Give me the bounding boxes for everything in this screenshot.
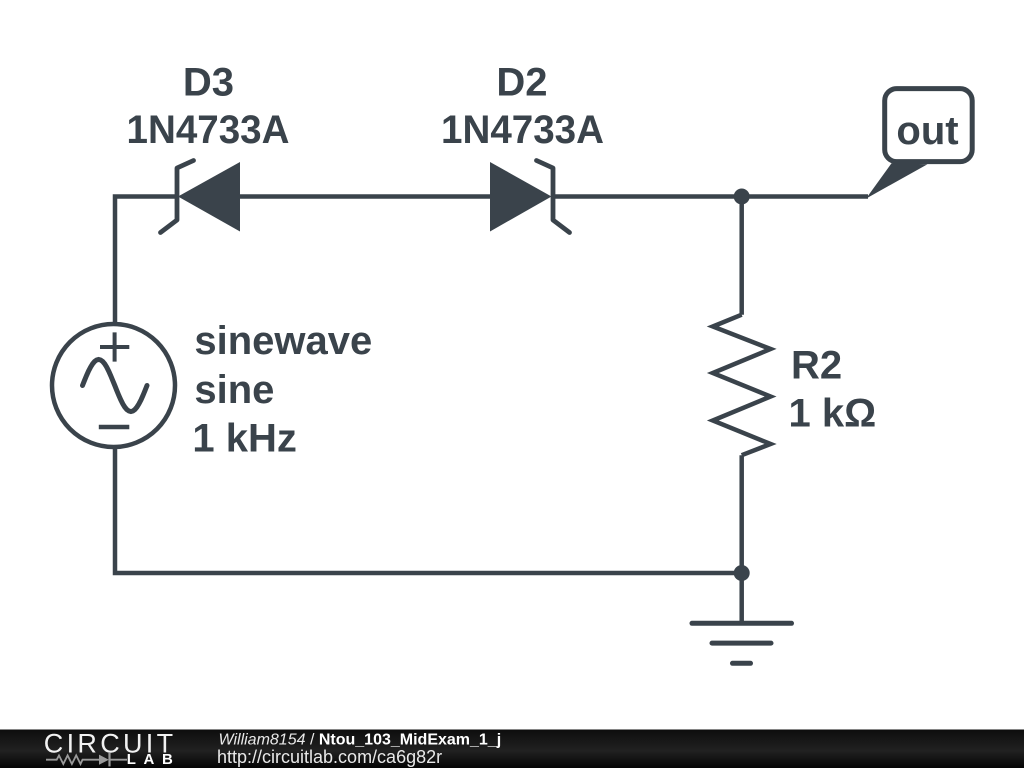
resistor R2 zigzag: [713, 315, 771, 456]
wire top-left loop: [115, 197, 179, 327]
ground bar 1: [692, 621, 792, 626]
diode D3 (zener, pointing left): [161, 161, 241, 233]
sine waveform: [83, 360, 148, 412]
voltage source V1 circle: [52, 324, 175, 447]
out flag box: [885, 89, 973, 162]
plus sign: [100, 332, 129, 361]
node junction at out: [734, 189, 750, 205]
wire resistor top lead: [739, 197, 744, 315]
svg-text:LAB: LAB: [127, 751, 181, 768]
svg-text:William8154 / Ntou_103_MidExam: William8154 / Ntou_103_MidExam_1_j: [219, 732, 502, 749]
svg-text:sinewave: sinewave: [194, 319, 372, 363]
svg-text:D2: D2: [496, 61, 547, 105]
node junction at ground: [734, 565, 750, 581]
diode D2 (zener, pointing right): [490, 161, 570, 233]
ground bar 3: [733, 661, 751, 666]
ground bar 2: [712, 641, 771, 646]
wire D3 to D2: [238, 194, 492, 199]
svg-text:1N4733A: 1N4733A: [441, 108, 604, 152]
svg-text:1 kHz: 1 kHz: [192, 417, 297, 461]
svg-text:1N4733A: 1N4733A: [127, 108, 290, 152]
svg-text:1 kΩ: 1 kΩ: [789, 392, 877, 436]
wire D2 to out node: [551, 194, 868, 199]
svg-text:http://circuitlab.com/ca6g82r: http://circuitlab.com/ca6g82r: [217, 747, 442, 767]
logo resistor-diode squiggle: [46, 753, 127, 766]
svg-text:D3: D3: [183, 61, 234, 105]
wire ground stem: [739, 573, 744, 623]
svg-text:sine: sine: [194, 368, 274, 412]
out flag tail: [866, 163, 928, 198]
minus sign: [99, 425, 130, 430]
wire resistor bottom lead: [739, 455, 744, 573]
svg-text:R2: R2: [791, 344, 842, 388]
wire bottom return: [115, 446, 742, 573]
svg-text:out: out: [896, 109, 958, 153]
